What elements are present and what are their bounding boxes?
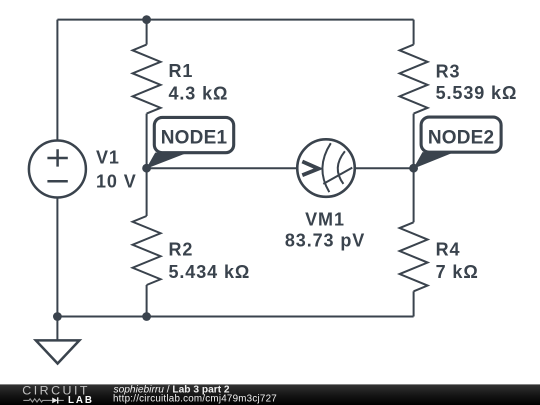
footer author / title line	[114, 384, 230, 395]
svg-text:http://circuitlab.com/cmj479m3: http://circuitlab.com/cmj479m3cj727	[113, 394, 277, 405]
svg-text:V1: V1	[96, 148, 120, 168]
svg-text:NODE1: NODE1	[161, 128, 228, 149]
svg-text:R2: R2	[169, 240, 194, 260]
footer CircuitLab logo wordmark CIRCUIT	[22, 384, 88, 398]
svg-text:LAB: LAB	[68, 395, 92, 405]
junction node NODE1	[142, 164, 151, 173]
junction at bottom rail / R2	[142, 312, 151, 321]
svg-text:R3: R3	[436, 61, 461, 81]
resistor R2	[133, 216, 161, 285]
svg-text:83.73 pV: 83.73 pV	[285, 231, 365, 251]
wire voltmeter to NODE2	[355, 167, 414, 169]
R4 label and value	[436, 240, 479, 282]
wire R3 bottom lead to NODE2	[413, 114, 415, 169]
footer CircuitLab logo wordmark LAB	[68, 395, 92, 405]
footer bar	[0, 384, 540, 405]
footer logo schematic wire with resistor and diode	[23, 397, 64, 403]
svg-text:VM1: VM1	[305, 209, 345, 229]
voltmeter VM1	[297, 139, 355, 197]
wire R1 top lead	[146, 20, 148, 45]
resistor R4	[400, 222, 428, 291]
resistor R3	[400, 45, 428, 114]
svg-text:10 V: 10 V	[96, 172, 137, 192]
ground lead wire	[56, 317, 58, 341]
node NODE2 callout pointer	[413, 152, 454, 169]
wire top rail	[57, 19, 413, 21]
R3 label and value	[436, 61, 518, 103]
R1 label and value	[169, 61, 229, 103]
R2 label and value	[169, 240, 251, 282]
node NODE2 label box	[421, 117, 501, 152]
svg-text:5.434 kΩ: 5.434 kΩ	[169, 262, 251, 282]
junction at bottom rail / V1	[53, 312, 62, 321]
footer circuit url	[113, 394, 277, 405]
wire NODE1 to voltmeter	[147, 167, 298, 169]
wire left rail bottom (V1 negative lead)	[56, 198, 58, 317]
wire left rail top (V1 positive lead)	[56, 20, 58, 141]
wire R2 bottom lead	[146, 285, 148, 317]
V1 label and value	[96, 148, 137, 192]
node NODE1 label box	[154, 117, 233, 152]
resistor R1	[133, 45, 161, 114]
svg-text:7 kΩ: 7 kΩ	[436, 262, 479, 282]
svg-text:NODE2: NODE2	[428, 127, 494, 148]
svg-text:R4: R4	[436, 240, 461, 260]
VM1 label and value	[285, 209, 365, 250]
wire R4 bottom lead	[413, 291, 415, 316]
node NODE1 callout pointer	[146, 153, 188, 169]
wire R3 top lead	[413, 20, 415, 45]
svg-text:4.3 kΩ: 4.3 kΩ	[169, 83, 229, 103]
junction at top rail / R1	[142, 15, 151, 24]
voltage source V1	[29, 141, 86, 198]
wire R2 top lead from NODE1	[146, 168, 148, 216]
wire R4 top lead from NODE2	[413, 168, 415, 222]
svg-text:R1: R1	[169, 61, 194, 81]
junction node NODE2	[409, 164, 418, 173]
wire R1 bottom lead to NODE1	[146, 114, 148, 169]
ground	[36, 340, 80, 363]
svg-text:5.539 kΩ: 5.539 kΩ	[436, 83, 518, 103]
wire bottom rail	[57, 316, 413, 318]
